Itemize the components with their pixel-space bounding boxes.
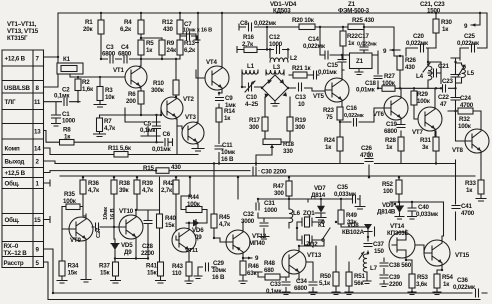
- transistor VT15: [415, 240, 470, 266]
- transistor VT9: [62, 214, 93, 282]
- svg-text:R20 10к: R20 10к: [292, 17, 315, 24]
- svg-text:R38: R38: [119, 180, 131, 187]
- resistor R45: [211, 164, 231, 239]
- resistor R54: [433, 266, 454, 295]
- wire twin tank top terminal: [428, 58, 460, 62]
- svg-text:C32: C32: [243, 211, 255, 218]
- svg-text:680: 680: [264, 267, 274, 274]
- wire pin2 join: [44, 161, 56, 164]
- svg-text:0,1мк: 0,1мк: [140, 127, 156, 134]
- svg-text:1,6к: 1,6к: [82, 86, 94, 93]
- svg-text:150: 150: [374, 248, 384, 255]
- svg-text:ZQ1: ZQ1: [303, 210, 315, 217]
- svg-text:0,022мк: 0,022мк: [406, 40, 429, 47]
- capacitor C9: [215, 95, 237, 109]
- svg-text:R10: R10: [153, 80, 165, 87]
- transistor VT13: [282, 246, 322, 280]
- diode VD7 zener: [311, 185, 326, 220]
- svg-text:КП303Е: КП303Е: [387, 230, 409, 237]
- svg-text:2200: 2200: [389, 281, 403, 288]
- svg-text:R29: R29: [417, 91, 429, 98]
- svg-text:R5: R5: [146, 40, 154, 47]
- resistor R16: [242, 34, 257, 53]
- crystal ZQ1: [297, 210, 318, 228]
- svg-text:С30 2200: С30 2200: [261, 169, 287, 176]
- resistor R43: [172, 256, 193, 284]
- svg-text:R26: R26: [405, 57, 417, 64]
- svg-text:6,2к: 6,2к: [184, 47, 196, 54]
- resistor R13: [177, 40, 196, 55]
- transistor VT2: [161, 96, 195, 119]
- svg-text:C13: C13: [295, 94, 307, 101]
- svg-text:ТХ–12 В: ТХ–12 В: [4, 250, 28, 257]
- svg-text:R39: R39: [142, 180, 154, 187]
- svg-text:R4: R4: [124, 19, 132, 26]
- wire C3 C4 node line: [101, 58, 180, 60]
- capacitor C25: [457, 33, 480, 53]
- svg-text:L7: L7: [370, 265, 378, 272]
- capacitor C37: [363, 237, 385, 255]
- svg-text:C33: C33: [270, 281, 282, 288]
- svg-text:300: 300: [249, 124, 259, 131]
- transistor VT5: [313, 70, 349, 107]
- svg-text:4,7к: 4,7к: [219, 221, 231, 228]
- svg-text:0,022мк: 0,022мк: [303, 43, 326, 50]
- resistor R36: [80, 180, 100, 194]
- svg-text:Z1: Z1: [356, 58, 364, 65]
- resistor R21: [289, 65, 319, 79]
- svg-text:C11: C11: [222, 142, 233, 149]
- switch K1.1: [299, 221, 330, 246]
- resistor R25: [348, 17, 375, 30]
- svg-text:Общ.: Общ.: [5, 217, 20, 224]
- svg-text:R11 5,6к: R11 5,6к: [108, 145, 132, 152]
- wire R17 R19 drops: [265, 97, 290, 142]
- diode VD9 zener: [377, 202, 404, 219]
- capacitor C12: [269, 34, 283, 55]
- svg-text:0,1мк: 0,1мк: [54, 93, 70, 100]
- svg-text:R28: R28: [385, 137, 397, 144]
- node header Z1: [338, 1, 370, 15]
- svg-text:0,022мк: 0,022мк: [344, 113, 364, 119]
- wire bus to K1: [57, 13, 59, 63]
- svg-text:VD7: VD7: [314, 185, 326, 192]
- svg-text:430: 430: [405, 64, 415, 71]
- connector table X1: [2, 50, 44, 268]
- svg-text:ТЛГ: ТЛГ: [5, 99, 17, 106]
- svg-text:C9: C9: [225, 95, 233, 102]
- svg-text:C23: C23: [442, 78, 454, 85]
- svg-text:C19: C19: [386, 121, 398, 128]
- svg-text:4–25: 4–25: [245, 101, 259, 108]
- svg-text:R12: R12: [162, 19, 174, 26]
- svg-text:Расстр: Расстр: [4, 260, 24, 267]
- transistor VT11: [172, 222, 199, 256]
- svg-text:L2: L2: [290, 55, 298, 62]
- svg-text:R21 1к: R21 1к: [292, 65, 312, 72]
- svg-text:10: 10: [298, 101, 305, 108]
- wire R16 C12 row: [237, 47, 289, 59]
- svg-text:R25 430: R25 430: [352, 17, 375, 24]
- svg-text:R42: R42: [163, 180, 175, 187]
- resistor R17: [249, 117, 268, 131]
- svg-text:110: 110: [172, 270, 182, 277]
- svg-text:R35: R35: [64, 191, 76, 198]
- svg-text:5,1к: 5,1к: [319, 280, 331, 287]
- potentiometer R18: [256, 131, 295, 171]
- tuned circuit L5: [456, 63, 475, 83]
- capacitor C4: [118, 44, 132, 64]
- resistor R44: [181, 177, 207, 222]
- svg-text:КВ102А: КВ102А: [342, 229, 365, 236]
- svg-text:C27: C27: [96, 228, 102, 238]
- svg-text:VT13: VT13: [307, 252, 322, 259]
- svg-text:+12,6 В: +12,6 В: [5, 56, 26, 63]
- capacitor C40: [408, 202, 439, 219]
- wire VT2 emitter to VT3: [177, 119, 182, 155]
- svg-text:R23: R23: [323, 107, 335, 114]
- capacitor C22: [438, 84, 450, 108]
- svg-text:0,022мк: 0,022мк: [453, 284, 476, 291]
- svg-text:VT1–VT11,: VT1–VT11,: [7, 21, 37, 28]
- resistor R53: [408, 260, 429, 295]
- svg-text:R32: R32: [459, 116, 471, 123]
- transistor VT10: [114, 208, 160, 259]
- wire pin1 tick: [44, 180, 51, 186]
- wire top bus: [58, 12, 487, 14]
- transistor VT3: [182, 114, 204, 144]
- svg-text:R6: R6: [128, 91, 136, 98]
- svg-text:10мк x 16 В: 10мк x 16 В: [183, 28, 212, 34]
- svg-text:VT8: VT8: [452, 147, 464, 154]
- svg-text:C38 560: C38 560: [389, 262, 412, 269]
- svg-text:0,022мк: 0,022мк: [254, 20, 277, 27]
- diode bridge VD1-VD4: [262, 75, 288, 106]
- capacitor C8: [240, 20, 277, 32]
- resistor R23: [323, 107, 343, 123]
- node arrow 9 VT12: [243, 255, 259, 262]
- wire C7 stub: [180, 34, 196, 40]
- wire pin11 to C2: [44, 102, 64, 114]
- svg-text:VT15: VT15: [455, 252, 470, 259]
- svg-text:10мк: 10мк: [212, 267, 227, 274]
- diode VD6: [186, 220, 207, 242]
- svg-text:15к: 15к: [147, 270, 157, 277]
- svg-text:R44: R44: [188, 194, 200, 201]
- capacitor C5: [140, 121, 161, 143]
- svg-text:16 В: 16 В: [212, 274, 225, 281]
- svg-text:4,7к: 4,7к: [104, 125, 116, 132]
- wire VT1 base feed: [70, 74, 125, 87]
- resistor R3: [94, 87, 115, 108]
- capacitor C24: [451, 95, 474, 141]
- inductor L7: [359, 252, 378, 284]
- filter Z1: [332, 51, 378, 88]
- wire pin9 L run: [44, 249, 488, 293]
- capacitor C13: [295, 83, 307, 109]
- svg-text:10мк: 10мк: [221, 149, 236, 156]
- svg-text:11: 11: [34, 99, 41, 106]
- svg-text:L3: L3: [273, 64, 281, 71]
- svg-text:Выход: Выход: [5, 159, 25, 166]
- capacitor C1: [52, 111, 76, 126]
- wire R8 row: [44, 131, 165, 143]
- capacitor C33: [266, 277, 291, 295]
- capacitor C32: [241, 211, 269, 239]
- svg-text:C14: C14: [308, 36, 320, 43]
- svg-text:VD5: VD5: [121, 242, 133, 249]
- svg-text:Комп: Комп: [5, 146, 20, 153]
- svg-text:0,01мк: 0,01мк: [356, 87, 376, 94]
- wire R1 drop: [100, 13, 102, 59]
- svg-text:VT13, VT15: VT13, VT15: [7, 28, 39, 35]
- svg-text:6800: 6800: [118, 51, 132, 58]
- wire pin5 L run: [44, 262, 481, 300]
- svg-text:2200: 2200: [141, 250, 155, 257]
- svg-text:VT14: VT14: [390, 223, 405, 230]
- capacitor C7: [180, 21, 212, 43]
- svg-text:15: 15: [34, 217, 41, 224]
- svg-text:C34: C34: [296, 278, 308, 285]
- svg-text:R41: R41: [146, 263, 158, 270]
- svg-text:C36: C36: [457, 277, 469, 284]
- capacitor C20: [406, 33, 429, 53]
- svg-text:R13: R13: [184, 40, 196, 47]
- wire rail y163.5: [55, 163, 455, 165]
- svg-text:Общ.: Общ.: [5, 181, 20, 188]
- capacitor C23: [442, 62, 460, 97]
- capacitor C38: [379, 258, 412, 272]
- svg-text:C39: C39: [389, 274, 401, 281]
- svg-text:C40: C40: [418, 204, 430, 211]
- capacitor C36: [453, 277, 482, 298]
- wire pin8 to K1: [44, 74, 59, 87]
- capacitor C39: [379, 272, 403, 288]
- resistor R28: [385, 137, 404, 164]
- svg-text:2,7к: 2,7к: [242, 41, 254, 48]
- svg-text:ZQ2: ZQ2: [306, 241, 318, 248]
- resistor R41: [146, 262, 166, 283]
- tuned circuit L4: [416, 60, 432, 88]
- wire pin7 to K1: [44, 56, 59, 58]
- transistor VT12: [214, 222, 267, 258]
- resistor R9: [159, 40, 177, 55]
- diode VD8 varicap: [342, 222, 375, 237]
- svg-text:R1: R1: [85, 19, 93, 26]
- capacitor C31: [254, 200, 290, 218]
- svg-text:К1: К1: [318, 222, 326, 229]
- diode VD5: [111, 239, 148, 262]
- svg-text:C6: C6: [163, 131, 171, 138]
- wire VT3 emitter ground: [192, 144, 204, 151]
- svg-text:R51: R51: [354, 273, 366, 280]
- svg-text:C12: C12: [269, 34, 281, 41]
- wire bridge left node: [242, 76, 262, 87]
- svg-text:C35: C35: [337, 184, 349, 191]
- capacitor C27: [92, 207, 116, 238]
- wire C8 row: [239, 24, 394, 56]
- svg-text:R24: R24: [324, 137, 336, 144]
- resistor R49: [338, 198, 368, 228]
- capacitor C30: [251, 166, 305, 176]
- wire VT3 collector: [197, 13, 199, 122]
- svg-text:R30: R30: [441, 19, 453, 26]
- svg-text:20к: 20к: [83, 26, 93, 33]
- resistor R31: [420, 131, 439, 164]
- resistor R7: [94, 118, 117, 137]
- svg-text:63к: 63к: [247, 270, 257, 277]
- svg-text:R17: R17: [249, 117, 261, 124]
- svg-text:16 В: 16 В: [221, 156, 234, 163]
- svg-text:R22: R22: [347, 33, 359, 40]
- resistor R11: [108, 145, 132, 157]
- resistor R34: [57, 229, 79, 283]
- svg-text:R40: R40: [165, 215, 177, 222]
- svg-text:39к: 39к: [119, 187, 129, 194]
- wire R52 bottom rail: [390, 194, 444, 240]
- svg-text:300: 300: [295, 124, 305, 131]
- svg-text:R36: R36: [88, 180, 100, 187]
- svg-text:VT2: VT2: [183, 96, 195, 103]
- svg-text:100: 100: [383, 188, 393, 195]
- svg-text:R27: R27: [384, 73, 396, 80]
- resistor R1: [83, 19, 104, 34]
- capacitor C28: [141, 210, 155, 259]
- svg-text:+12,5 В: +12,5 В: [5, 170, 26, 177]
- svg-text:6800: 6800: [294, 285, 308, 292]
- svg-text:C16: C16: [346, 105, 358, 112]
- node header VD1-VD4: [270, 1, 297, 15]
- svg-text:VT6: VT6: [373, 111, 385, 118]
- svg-text:КТ315Г: КТ315Г: [7, 35, 28, 42]
- svg-text:USB/LSB: USB/LSB: [4, 85, 30, 92]
- capacitor C14: [303, 27, 342, 59]
- resistor R15: [143, 164, 181, 173]
- capacitor C6: [152, 131, 173, 153]
- resistor R27: [378, 73, 437, 91]
- svg-text:1000: 1000: [269, 41, 283, 48]
- wire pin14 join: [44, 148, 51, 155]
- svg-text:C22: C22: [438, 94, 450, 101]
- svg-text:10мк: 10мк: [103, 207, 109, 220]
- transistor VT4: [205, 59, 229, 90]
- svg-text:L1: L1: [247, 63, 255, 70]
- svg-text:C10: C10: [246, 94, 258, 101]
- svg-text:6800: 6800: [102, 51, 116, 58]
- svg-text:VT5: VT5: [313, 93, 325, 100]
- inductor L6: [289, 202, 301, 228]
- svg-text:C26: C26: [361, 145, 373, 152]
- svg-text:4700: 4700: [360, 152, 374, 159]
- svg-text:К1: К1: [63, 56, 71, 63]
- resistor R10: [151, 80, 179, 95]
- svg-text:R31: R31: [420, 137, 432, 144]
- wire R6 bottom: [140, 104, 142, 115]
- svg-text:100к: 100к: [382, 80, 396, 87]
- svg-text:C15: C15: [327, 62, 339, 69]
- svg-text:3,6к: 3,6к: [416, 281, 428, 288]
- svg-text:15к: 15к: [68, 270, 78, 277]
- svg-text:4700: 4700: [461, 210, 475, 217]
- svg-text:R34: R34: [68, 263, 80, 270]
- svg-text:VT11: VT11: [185, 248, 199, 254]
- wire R4-R5 drop: [140, 13, 142, 66]
- resistor R2: [75, 79, 94, 93]
- wire C1 ground: [55, 119, 57, 124]
- svg-text:C20: C20: [413, 33, 425, 40]
- svg-text:VT7: VT7: [412, 129, 424, 136]
- svg-text:R50: R50: [320, 273, 332, 280]
- svg-text:200: 200: [126, 98, 136, 105]
- svg-text:0,022мк: 0,022мк: [357, 42, 377, 48]
- resistor R8: [60, 127, 75, 146]
- svg-text:R37: R37: [99, 263, 111, 270]
- svg-text:R45: R45: [219, 214, 231, 221]
- svg-text:R9: R9: [167, 40, 175, 47]
- resistor R40: [157, 214, 177, 262]
- svg-text:100к: 100к: [63, 198, 77, 205]
- wire VT4 collector: [221, 13, 223, 66]
- wire R7 top row: [100, 115, 162, 126]
- svg-text:R49: R49: [346, 212, 358, 219]
- capacitor C16: [339, 105, 364, 127]
- transistor VT14 fet: [387, 223, 415, 260]
- svg-text:47: 47: [440, 101, 447, 108]
- svg-text:C37: C37: [373, 241, 385, 248]
- svg-text:VT3: VT3: [185, 114, 197, 121]
- svg-text:R46: R46: [248, 263, 260, 270]
- svg-text:VD8: VD8: [347, 222, 359, 229]
- svg-text:Д814: Д814: [311, 192, 326, 199]
- transistor VT7: [412, 88, 442, 137]
- svg-text:C29: C29: [213, 260, 225, 267]
- svg-text:1000: 1000: [62, 118, 76, 125]
- wire bridge right node: [266, 73, 325, 91]
- svg-text:430: 430: [171, 164, 181, 171]
- wire R10 drop: [175, 59, 177, 97]
- svg-text:R47: R47: [273, 183, 285, 190]
- svg-text:R14: R14: [224, 108, 236, 115]
- capacitor C26: [360, 145, 374, 177]
- svg-text:300: 300: [274, 190, 284, 197]
- svg-text:RX–0: RX–0: [4, 243, 19, 250]
- svg-text:100к: 100к: [458, 123, 472, 130]
- svg-text:C28: C28: [142, 243, 154, 250]
- svg-text:R53: R53: [417, 274, 429, 281]
- wire VT4 base: [196, 70, 205, 78]
- resistor R46: [239, 258, 260, 284]
- svg-text:R2: R2: [82, 79, 90, 86]
- svg-text:300к: 300к: [151, 87, 165, 94]
- svg-text:16 В: 16 В: [110, 209, 116, 220]
- svg-text:Д814В: Д814В: [377, 209, 396, 216]
- resistor R42: [161, 180, 179, 194]
- inductor L3: [266, 64, 284, 75]
- capacitor C18: [356, 75, 383, 94]
- svg-text:4,7к: 4,7к: [142, 187, 154, 194]
- svg-text:4,7к: 4,7к: [88, 187, 100, 194]
- svg-text:24к: 24к: [167, 47, 177, 54]
- resistor R20: [292, 17, 315, 30]
- wire R9 branch: [141, 38, 162, 59]
- resistor R4: [120, 19, 144, 34]
- transistor VT8: [452, 129, 489, 164]
- svg-text:R33: R33: [465, 180, 477, 187]
- svg-text:R52: R52: [382, 181, 394, 188]
- svg-text:R19: R19: [295, 117, 307, 124]
- svg-text:0,033мк: 0,033мк: [334, 191, 357, 198]
- capacitor C35: [334, 184, 357, 203]
